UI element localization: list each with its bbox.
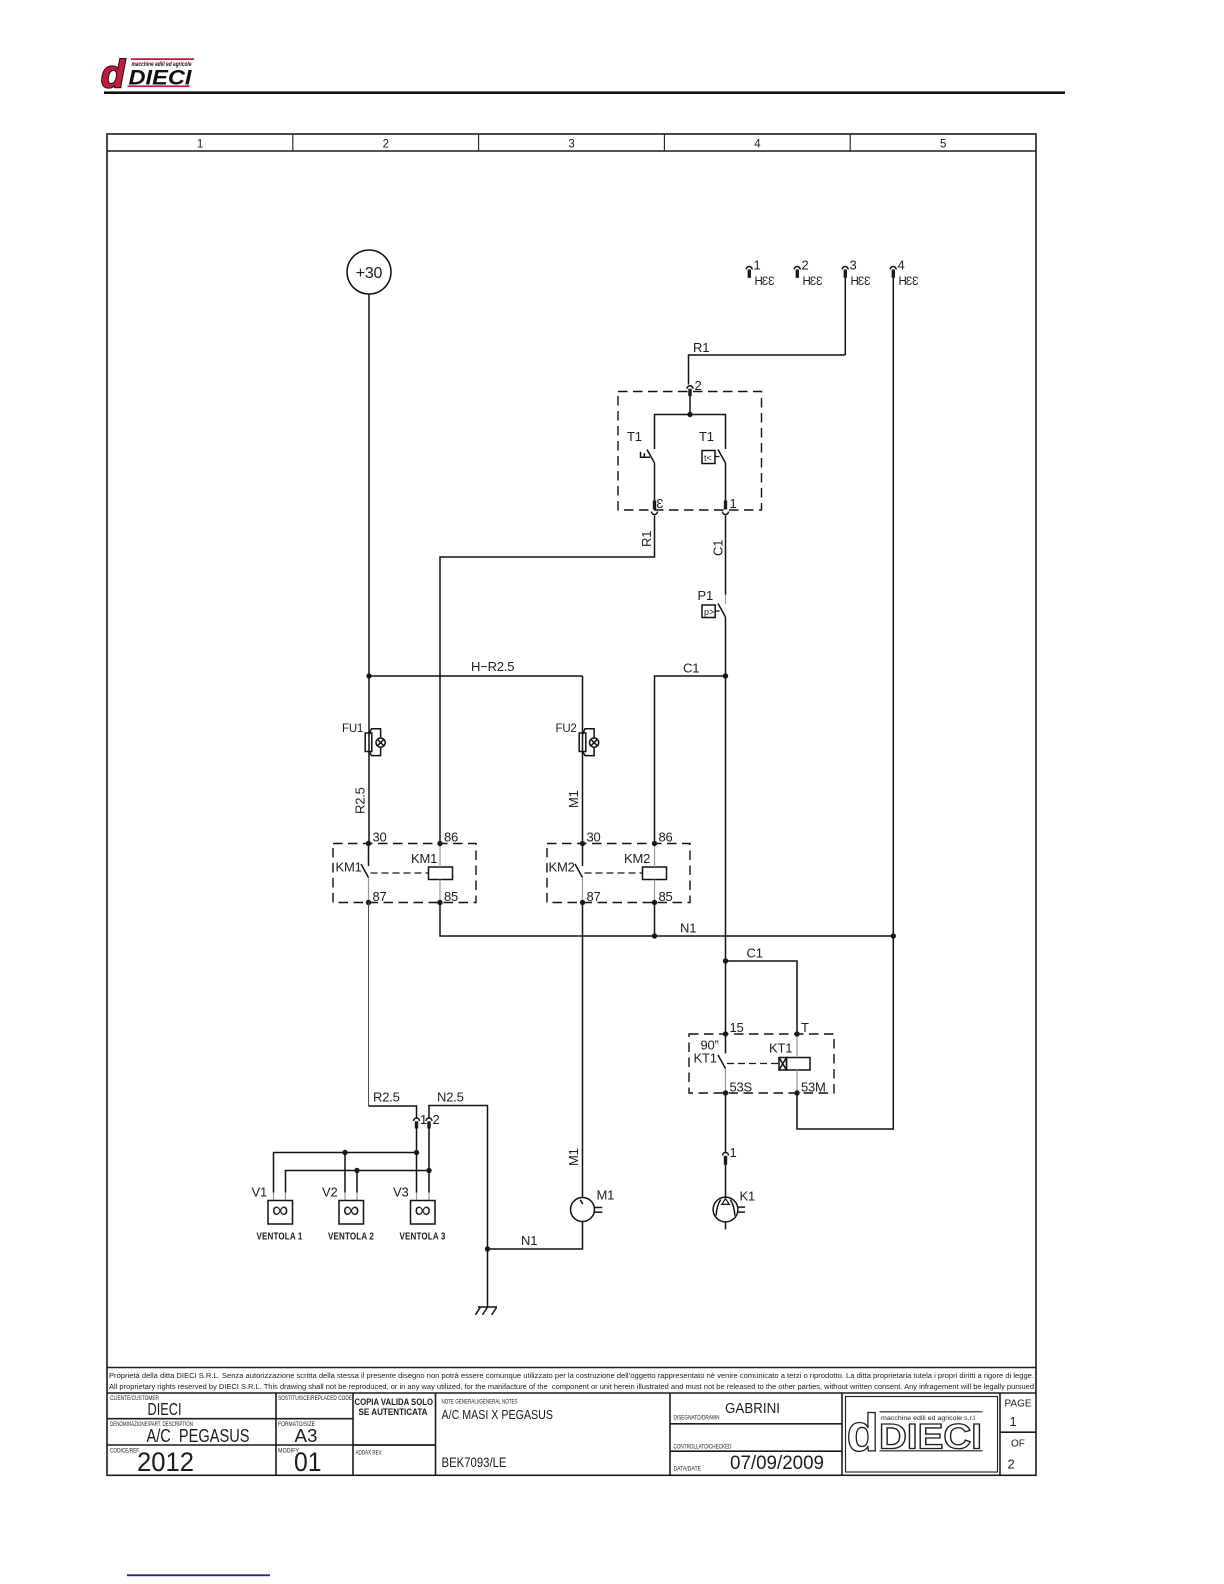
svg-text:86: 86 [444,830,458,845]
wire KT1 53S down [725,1093,727,1152]
wire C1 down to KT1 15 [725,961,727,1034]
wire V3 risers [416,1153,418,1193]
svg-text:p>: p> [704,607,714,617]
svg-text:1: 1 [197,139,203,151]
svg-text:P1: P1 [698,588,714,603]
wire loop N1 to KT1 53M [797,936,893,1129]
wire net R1 from T1 pin3 to KM1 86 [440,516,655,844]
relay KM2 dashed box [547,844,690,903]
KM2 pin labels [580,830,673,906]
svg-text:3: 3 [656,496,663,511]
svg-text:N1: N1 [680,921,696,936]
svg-text:CONTROLLATO/CHECKED: CONTROLLATO/CHECKED [674,1444,732,1451]
svg-text:t<: t< [704,453,712,463]
connector pin 2 H33 [794,258,822,289]
svg-text:85: 85 [659,889,673,904]
title cell CODICE [110,1447,194,1477]
wire KM1 85 to N1 [440,903,893,937]
svg-text:85: 85 [444,889,458,904]
relay KM1 coil [411,844,453,903]
svg-text:∞: ∞ [343,1197,359,1223]
svg-text:NOTE GENERALI/GENERAL NOTES: NOTE GENERALI/GENERAL NOTES [442,1399,518,1406]
svg-text:87: 87 [373,889,387,904]
svg-text:VENTOLA 3: VENTOLA 3 [400,1230,446,1242]
fan V2 [322,1185,374,1243]
connector pin 4 H33 [890,258,918,289]
wire ground drop [487,1249,489,1307]
relay KM1 contact [336,844,429,903]
svg-text:R1: R1 [693,340,709,355]
timer relay KT1 dashed box [689,1034,834,1093]
svg-text:∞: ∞ [414,1197,430,1223]
svg-text:KM2: KM2 [549,860,575,875]
wire KM2 87 down to motor M1 [566,903,583,1198]
svg-text:KM1: KM1 [411,851,437,866]
KM1 pin labels [366,830,458,906]
svg-text:COPIA VALIDA SOLO: COPIA VALIDA SOLO [355,1397,434,1407]
thermal switch T1 right with t< box [699,429,726,501]
svg-text:1: 1 [730,496,737,511]
svg-text:∞: ∞ [272,1197,288,1223]
wire FU1 to KM1 pin30, net R2.5 [353,676,370,844]
fuse FU1 with lamp [342,723,385,756]
svg-text:M1: M1 [566,1148,581,1166]
net R2.5 bend [369,1090,417,1118]
connector pin 3 H33 [842,258,870,289]
svg-text:KT1: KT1 [769,1041,792,1056]
svg-text:2: 2 [433,1112,440,1127]
svg-text:M1: M1 [597,1188,615,1203]
wire to compressor K1 [725,1165,727,1197]
page number cell [1005,1399,1032,1472]
svg-text:T1: T1 [627,429,642,444]
node junction +30/H-R2.5 [366,673,371,678]
wire T1 internal top bus [655,415,726,450]
svg-text:DIECI: DIECI [148,1399,182,1419]
pressure switch P1 [698,588,726,676]
title cell DISEGNATO [674,1400,781,1421]
node junction pin4/N1 [891,933,896,938]
title cell DATA [674,1453,825,1474]
svg-text:GABRINI: GABRINI [725,1400,780,1417]
title cell CLIENTE [110,1395,182,1419]
battery +30 supply symbol [347,250,391,294]
title cell NOTE GENERALI [442,1399,554,1471]
svg-text:53M: 53M [801,1080,826,1095]
svg-text:C1: C1 [683,661,699,676]
wire +30 down to H-R2.5 node [368,294,370,676]
wire net H-R2.5 [369,659,583,676]
connector pin 1 of T1 [723,496,737,515]
wire FU2 to KM2 pin30, net M1 [566,676,583,844]
svg-text:33: 33 [810,276,822,288]
node junction T1 top [687,412,692,417]
svg-text:VENTOLA 1: VENTOLA 1 [257,1230,303,1242]
svg-text:DATA/DATE: DATA/DATE [674,1466,702,1473]
fuse FU2 with lamp [556,723,599,756]
svg-text:H: H [803,276,811,288]
svg-text:C1: C1 [747,946,763,961]
KT1 timer coil [769,1034,810,1093]
svg-text:SE AUTENTICATA: SE AUTENTICATA [359,1407,428,1417]
wire net C1 from T1 pin1 to P1 [711,516,726,595]
wire fan bus B [286,1129,432,1193]
svg-text:2: 2 [1008,1457,1015,1472]
svg-text:FU2: FU2 [556,723,577,735]
svg-text:ADDAX REV.: ADDAX REV. [356,1450,383,1457]
svg-text:V2: V2 [322,1185,338,1200]
svg-text:2: 2 [695,378,702,393]
svg-text:30: 30 [587,830,601,845]
svg-text:H−R2.5: H−R2.5 [471,659,514,674]
svg-text:SOSTITUISCE/REPLACED CODE: SOSTITUISCE/REPLACED CODE [278,1395,352,1402]
svg-text:2: 2 [802,258,809,273]
wire pin3 down [844,278,846,355]
svg-text:OF: OF [1011,1439,1025,1450]
svg-text:A/C MASI X PEGASUS: A/C MASI X PEGASUS [442,1407,554,1422]
relay KM1 dashed box [333,844,476,903]
svg-text:15: 15 [730,1020,744,1035]
svg-text:5: 5 [940,139,946,151]
svg-text:33: 33 [762,276,774,288]
net R1 horizontal [689,340,846,385]
connector pin 2 of T1 [687,378,702,396]
fan V3 [393,1185,446,1243]
title cell COPIA VALIDA [355,1397,434,1417]
KT1 pin labels [723,1020,826,1096]
svg-text:R2.5: R2.5 [353,787,368,814]
net N2.5 wire [429,1090,488,1250]
svg-text:A/C PEGASUS: A/C PEGASUS [147,1425,250,1446]
svg-text:N1: N1 [521,1233,537,1248]
wire net C1 to KT1 coil [726,946,798,1035]
svg-text:3: 3 [850,258,857,273]
relay KM2 coil [624,844,667,903]
svg-text:M1: M1 [566,790,581,808]
svg-text:KM2: KM2 [624,851,650,866]
svg-text:N2.5: N2.5 [437,1090,464,1105]
svg-text:All proprietary rights reserve: All proprietary rights reserved by DIECI… [109,1382,1034,1391]
svg-text:V1: V1 [252,1185,268,1200]
relay KM2 contact [549,844,643,903]
svg-text:K1: K1 [740,1189,756,1204]
svg-text:d: d [101,54,126,97]
wire P1 node down across N1 [725,676,727,961]
fan V1 [252,1185,303,1243]
wire into T1 junction [689,396,691,414]
svg-text:4: 4 [754,139,761,151]
DIECI company logo (top left) [101,54,194,97]
connector pin 1 of K1 [723,1145,737,1165]
KT1 contact with 90" delay [694,1034,780,1093]
wire KM1 87 down to R2.5 bend [368,903,370,1107]
node junction C1 branch [723,958,728,963]
svg-text:KM1: KM1 [336,860,362,875]
column header band [107,134,1036,151]
svg-text:C1: C1 [711,540,726,556]
svg-text:CODICE/REF.: CODICE/REF. [110,1447,140,1454]
compressor clutch K1 [713,1189,755,1230]
wire pin4 down to N1 [892,278,894,936]
connector pin 2 (fans) [426,1112,440,1129]
svg-text:01: 01 [294,1447,322,1477]
svg-text:1: 1 [730,1145,737,1160]
DIECI outline logo (title block) [846,1397,998,1473]
drawing frame border [107,134,1036,1475]
connector pin 1 H33 [746,258,774,289]
svg-text:4: 4 [898,258,905,273]
svg-text:A3: A3 [295,1425,318,1446]
svg-text:KT1: KT1 [694,1051,717,1066]
title block grid [107,1393,1036,1475]
node junction KM2-85/N1 [652,933,657,938]
svg-text:53S: 53S [730,1080,753,1095]
footer hyperlink line [127,1574,270,1576]
motor M1 [571,1188,615,1222]
svg-text:33: 33 [906,276,918,288]
svg-text:H: H [899,276,907,288]
thermal switch T1 left [627,429,655,501]
svg-text:3: 3 [568,139,574,151]
thermostat unit T1 dashed box [618,392,762,511]
wire net C1 horizontal to KM2 coil [655,661,726,844]
svg-text:1: 1 [1010,1414,1017,1429]
svg-text:BEK7093/LE: BEK7093/LE [442,1455,507,1470]
svg-text:T: T [801,1020,809,1035]
svg-text:DISEGNATO/DRAWN: DISEGNATO/DRAWN [674,1415,720,1422]
svg-text:07/09/2009: 07/09/2009 [730,1453,824,1474]
connector pin 3 of T1 [652,496,664,515]
wire V2 risers [344,1153,346,1193]
svg-text:d: d [847,1404,879,1463]
title cell DENOMINAZIONE [110,1421,250,1446]
connector pin 1 (fans) [414,1112,428,1129]
svg-text:Proprietà della ditta DIECI S.: Proprietà della ditta DIECI S.R.L. Senza… [109,1371,1034,1380]
svg-text:R1: R1 [639,531,654,547]
wire KM2 85 to N1 [654,903,656,937]
svg-text:PAGE: PAGE [1005,1399,1032,1410]
svg-text:R2.5: R2.5 [373,1090,400,1105]
svg-text:2: 2 [383,139,389,151]
title cell MODIFY [278,1447,322,1477]
svg-text:VENTOLA 2: VENTOLA 2 [328,1230,374,1242]
svg-text:2012: 2012 [137,1447,194,1477]
ground (chassis) [475,1307,497,1315]
svg-text:H: H [851,276,859,288]
node junction N1/ground [485,1246,490,1251]
title cell FORMATO [278,1421,318,1446]
svg-text:T1: T1 [699,429,714,444]
svg-text:86: 86 [659,830,673,845]
wire M1 to N1 bottom [488,1222,583,1250]
svg-text:33: 33 [858,276,870,288]
svg-text:H: H [755,276,763,288]
horizontal rule under logo [104,91,1065,94]
svg-text:87: 87 [587,889,601,904]
notice band borders [107,1368,1036,1394]
wire fan bus A [274,1129,420,1193]
svg-text:FU1: FU1 [342,723,363,735]
svg-text:1: 1 [754,258,761,273]
svg-text:30: 30 [373,830,387,845]
svg-text:+30: +30 [356,265,383,282]
svg-text:V3: V3 [393,1185,409,1200]
node junction C1/P1 [723,673,728,678]
